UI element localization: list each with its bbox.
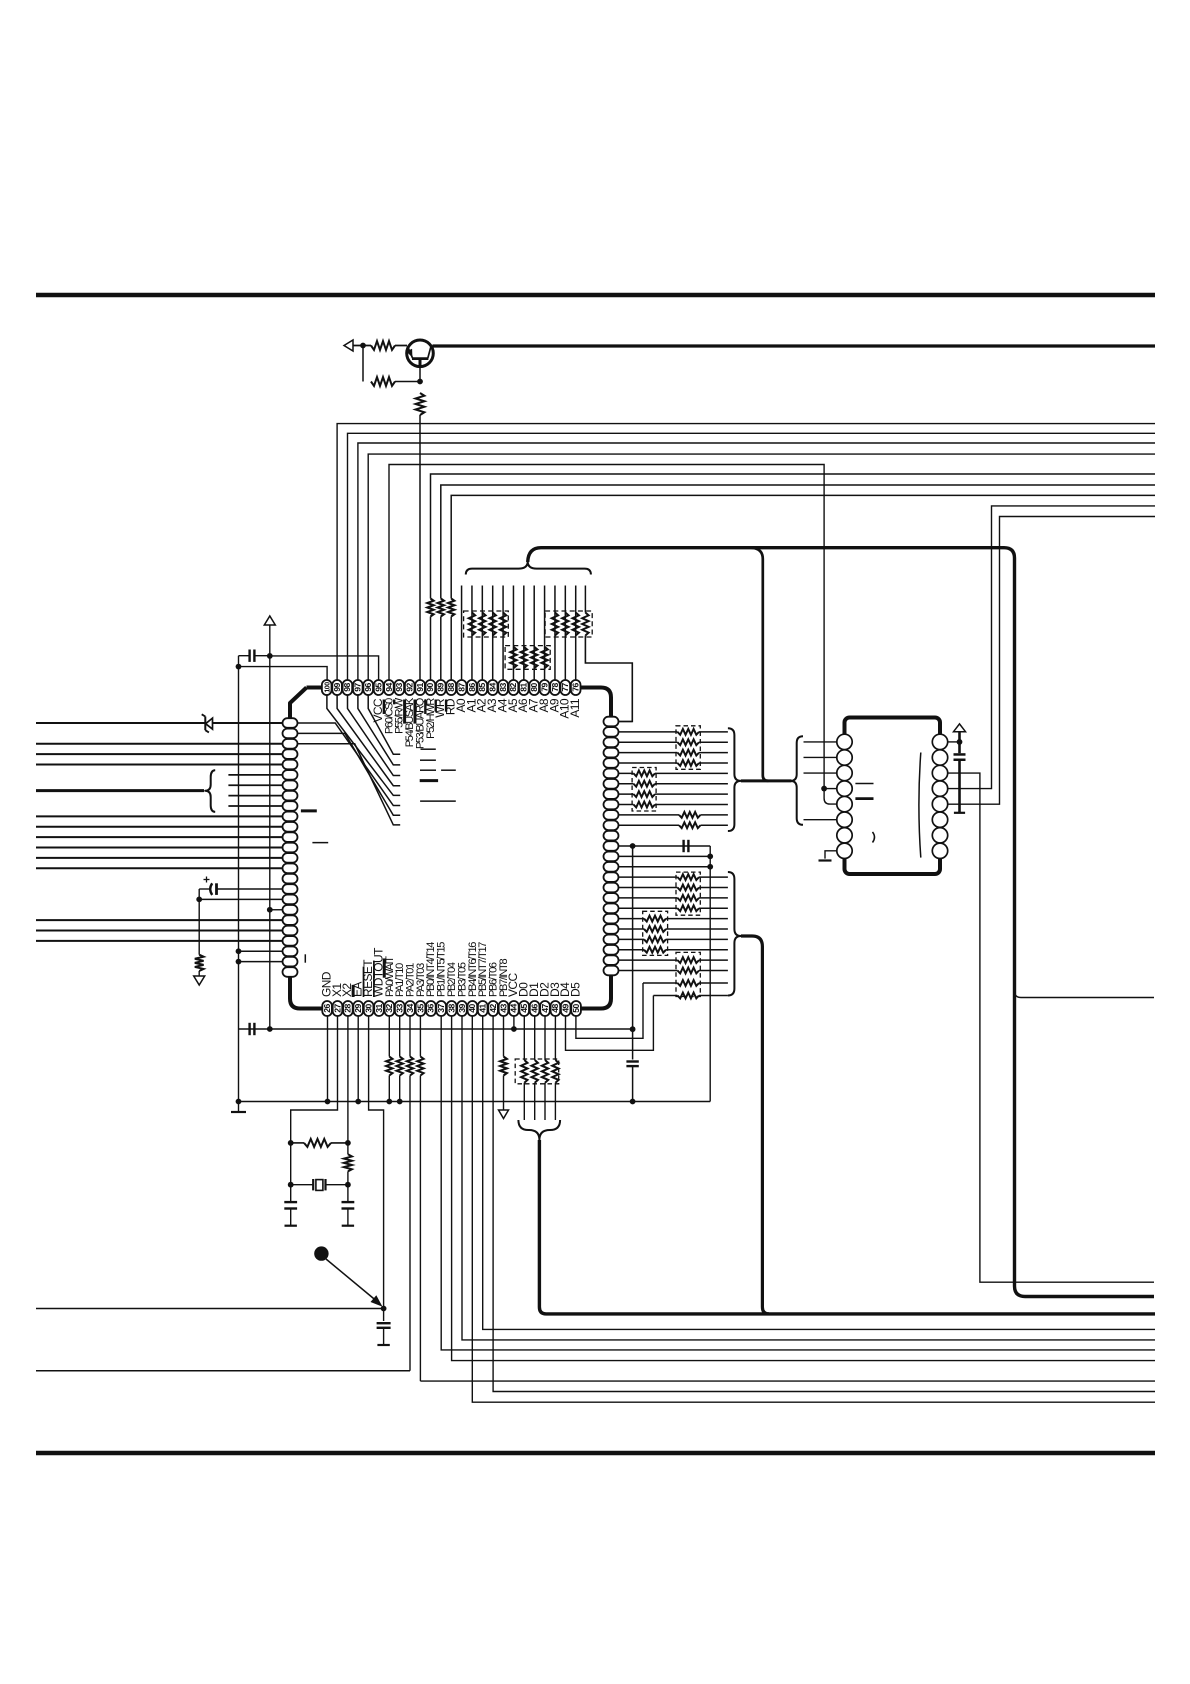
svg-text:32: 32 xyxy=(384,1004,394,1013)
svg-text:78: 78 xyxy=(550,683,560,692)
IC1 right pins 75-51 (ovals) xyxy=(604,717,619,727)
wire (pin 63 net with dot) xyxy=(619,845,711,847)
wire (IC2 R5 from right edge) xyxy=(948,517,1155,805)
node dot xyxy=(381,1306,387,1312)
node dot xyxy=(707,864,713,870)
wire (pin 18 net) xyxy=(199,898,282,900)
svg-text:28: 28 xyxy=(343,1004,353,1013)
svg-text:79: 79 xyxy=(539,683,549,692)
capacitor C-r xyxy=(682,840,684,852)
svg-text:48: 48 xyxy=(550,1004,560,1013)
resistor array RA3 (dashed box) xyxy=(545,611,592,637)
capacitor C-x1 xyxy=(290,1185,292,1202)
node dot xyxy=(236,1099,242,1105)
wire (VCC to pin 95) xyxy=(270,656,379,681)
svg-text:30: 30 xyxy=(363,1004,373,1013)
wire (pin 37 to right edge) xyxy=(441,1016,1155,1350)
wire (pin 34 to left edge) xyxy=(36,1370,410,1372)
electrolytic capacitor C-el xyxy=(215,883,218,895)
svg-text:99: 99 xyxy=(332,683,342,692)
brace (address bus gather) xyxy=(466,562,591,575)
wire (bus line, pin 368 up and right) xyxy=(368,454,1155,680)
wire (pin 1 net) xyxy=(36,722,282,724)
node dot xyxy=(417,379,423,385)
wire xyxy=(290,1143,292,1185)
svg-text:82: 82 xyxy=(508,683,518,692)
svg-text:96: 96 xyxy=(363,683,373,692)
capacitor C-d xyxy=(626,1060,638,1062)
wire (feed to IC2 pins 4,5) xyxy=(824,789,837,805)
bottom horizontal rule xyxy=(36,1451,1155,1456)
wire (pin 29 to ground rail) xyxy=(357,1016,359,1102)
wire (pin 3 net) xyxy=(36,743,282,745)
RA8 resistors (pins 52,51 + D4,D5 lines) xyxy=(619,959,678,961)
svg-text:29: 29 xyxy=(353,1004,363,1013)
svg-text:37: 37 xyxy=(436,1004,446,1013)
transistor Q1 xyxy=(407,340,434,367)
wire (pin 11 net) xyxy=(36,826,282,828)
svg-text:93: 93 xyxy=(394,683,404,692)
ground tick xyxy=(954,812,965,814)
svg-text:91: 91 xyxy=(415,683,425,692)
svg-text:81: 81 xyxy=(519,683,529,692)
IC1 internal fan wires xyxy=(368,696,400,755)
wire (pin 13 net) xyxy=(36,847,282,849)
VCC arrow up xyxy=(958,732,961,742)
wire (bus line, pin 358 up and right) xyxy=(358,443,1155,681)
wire xyxy=(291,1142,304,1144)
resistor array RA4 (dashed box) xyxy=(676,726,700,770)
ground (open triangle) xyxy=(194,976,205,985)
wire (pin 35 to right edge) xyxy=(420,1380,1155,1382)
brace (IC2 input gather) xyxy=(790,736,803,825)
wire (pin 6 from brace) xyxy=(228,774,282,776)
svg-text:47: 47 xyxy=(540,1004,550,1013)
svg-text:42: 42 xyxy=(488,1004,498,1013)
wire (bus line, pin 348 up and right) xyxy=(348,433,1156,680)
IC1 bottom pins 26-50 (ovals) xyxy=(322,1001,332,1016)
wire (pin 75 stub) xyxy=(619,721,633,723)
wire (pin 9 from brace) xyxy=(228,805,282,807)
bus wire (thick data bus down) xyxy=(539,1140,1155,1314)
RA7 resistors (pins 56-53) xyxy=(619,918,645,920)
node dot xyxy=(821,786,827,792)
wire (bus line with resistor, pin col 451) xyxy=(450,617,452,681)
annotation arrow xyxy=(326,1259,376,1301)
IC2 inner mark (thick dash) xyxy=(855,797,873,800)
svg-text:100: 100 xyxy=(325,682,332,693)
svg-text:77: 77 xyxy=(560,683,570,692)
wire (bus line, pin 337 up and right) xyxy=(337,424,1155,681)
wire xyxy=(198,889,200,955)
capacitor C-top xyxy=(248,650,250,662)
wire (IC2 pin8 to ground) xyxy=(825,851,837,859)
microcontroller IC1 (QFP-100) body xyxy=(290,688,611,1009)
wire (bus line with resistor, pin col 441) xyxy=(440,617,442,681)
wire (pin 49 L-path) xyxy=(566,996,654,1051)
RA4 resistors (pins 74-71) xyxy=(619,731,678,733)
svg-text:85: 85 xyxy=(477,683,487,692)
svg-text:80: 80 xyxy=(529,683,539,692)
capacitor C-s xyxy=(248,1023,250,1035)
wire (brace to IC2 pin) xyxy=(804,772,837,774)
wire xyxy=(958,760,961,813)
resistor (pin 32) xyxy=(388,1016,390,1057)
wire (branch from bus to right edge) xyxy=(1015,991,1155,998)
wire (IC2 R1 to VCC node) xyxy=(948,741,960,743)
bus wire (thick, brace to IC2 brace) xyxy=(741,779,792,782)
address bus lines A0-A11 up to brace xyxy=(461,586,463,681)
resistor R-g xyxy=(195,955,204,971)
node dot xyxy=(345,1182,351,1188)
wire xyxy=(239,655,250,657)
IC1 left pins 1-25 (ovals) xyxy=(283,718,298,728)
resistor R-b (base lower) xyxy=(371,377,395,386)
svg-text:92: 92 xyxy=(405,683,415,692)
resistor (pin 35) xyxy=(419,1016,421,1057)
svg-text:97: 97 xyxy=(353,683,363,692)
wire (brace to IC2 pin) xyxy=(804,819,837,821)
node dot xyxy=(345,1140,351,1146)
IC2 inner mark (dash) xyxy=(855,783,873,785)
IC2 left pins (circles) xyxy=(837,734,852,749)
bus wire (thick vertical from address bus T) xyxy=(752,548,769,781)
svg-text:40: 40 xyxy=(467,1004,477,1013)
wire (pin 15 net) xyxy=(36,867,282,869)
zener diode D1 xyxy=(204,717,206,731)
RA2 resistors (A5-A8 lines) xyxy=(510,647,516,668)
crystal X1 xyxy=(291,1184,314,1186)
brace (right bus gather upper) xyxy=(728,728,741,831)
wire (pin 39 to right edge) xyxy=(462,1016,1155,1340)
wire (pin 7 from brace) xyxy=(228,784,282,786)
IC2 inner arc small xyxy=(873,832,875,843)
wire xyxy=(395,381,420,383)
wire (down to pin 91) xyxy=(419,415,421,681)
wire (pin 40 to right edge) xyxy=(472,1016,1155,1402)
wire (collector, thick to right edge) xyxy=(433,344,1156,347)
svg-text:89: 89 xyxy=(436,683,446,692)
IC2 right pins (circles) xyxy=(932,734,947,749)
wire (pin 28 X2 path) xyxy=(347,1016,349,1143)
svg-text:41: 41 xyxy=(478,1004,488,1013)
resistor array RA9 (dashed box) xyxy=(515,1059,559,1084)
node dot xyxy=(707,853,713,859)
svg-text:98: 98 xyxy=(342,683,352,692)
wire (vertical to lower cap) xyxy=(632,846,634,1060)
svg-text:44: 44 xyxy=(509,1004,519,1013)
brace (right bus gather lower) xyxy=(728,872,741,996)
node dot xyxy=(630,1026,636,1032)
wire (left branch down) xyxy=(362,346,364,382)
resistors (pins 66,65) xyxy=(619,814,680,816)
RA5 resistors (pins 70-67) xyxy=(619,772,634,774)
svg-text:50: 50 xyxy=(571,1004,581,1013)
wire (bus line with resistor, pin col 430) xyxy=(430,617,432,681)
wire (pin 50 L-path) xyxy=(576,983,643,1038)
wire (pin 4 net) xyxy=(36,753,282,755)
svg-text:26: 26 xyxy=(322,1004,332,1013)
wire (brace to IC2 pin) xyxy=(804,756,837,758)
svg-text:76: 76 xyxy=(571,683,581,692)
wire (IC2 R3 down to bottom right) xyxy=(948,773,1154,1282)
wire (pin 5 net) xyxy=(36,764,282,766)
wire (pin 8 from brace) xyxy=(228,795,282,797)
RA1 resistors (A1-A4 lines) xyxy=(469,613,475,636)
svg-text:84: 84 xyxy=(488,683,498,692)
capacitor C-x2 xyxy=(347,1185,349,1202)
svg-text:D5: D5 xyxy=(569,982,583,997)
node dot xyxy=(196,896,202,902)
wire (pin 26 to ground rail) xyxy=(327,1016,329,1102)
RA6 resistors (pins 60-57) xyxy=(619,876,678,878)
resistor R-x2 xyxy=(347,1143,349,1154)
capacitor C-r2 xyxy=(383,1309,385,1322)
bus wire (thick, lower brace down to bottom bus) xyxy=(741,936,769,1314)
IC2 body xyxy=(845,718,941,875)
svg-text:87: 87 xyxy=(456,683,466,692)
ground tick xyxy=(819,859,832,861)
supply rail (horizontal) xyxy=(239,1028,633,1030)
svg-text:A11: A11 xyxy=(568,698,582,718)
wire (pin 12 net) xyxy=(36,836,282,838)
svg-text:46: 46 xyxy=(529,1004,539,1013)
svg-text:31: 31 xyxy=(374,1004,384,1013)
wire (pin 22 net) xyxy=(36,940,282,942)
resistor array RA6 (dashed box) xyxy=(676,872,700,915)
node dot xyxy=(288,1140,294,1146)
resistor (pin 43) to ground xyxy=(503,1016,505,1057)
node dot xyxy=(236,664,242,670)
wire (pin 19 stub) xyxy=(270,909,282,911)
svg-text:83: 83 xyxy=(498,683,508,692)
svg-text:86: 86 xyxy=(467,683,477,692)
test point (filled dot) xyxy=(314,1246,328,1260)
node dot xyxy=(957,739,963,745)
wire (emitter down) xyxy=(419,367,421,382)
resistor (pin 33) xyxy=(399,1016,401,1057)
resistor array RA8 (dashed box) xyxy=(676,952,700,996)
wire (reset line to left edge) xyxy=(36,1308,384,1310)
wire (VCC rail vertical) xyxy=(269,656,271,1029)
svg-text:45: 45 xyxy=(519,1004,529,1013)
node dot xyxy=(267,653,273,659)
svg-text:49: 49 xyxy=(561,1004,571,1013)
wire (pin 20 net) xyxy=(36,919,282,921)
wire (pin 27 X1 path) xyxy=(291,1016,338,1143)
wire (pin 61 net) xyxy=(619,866,711,868)
brace (data bus gather) xyxy=(518,1120,560,1140)
wire (spare resistor to pin 75) xyxy=(585,636,632,722)
wire (pin 10 net) xyxy=(36,815,282,817)
svg-text:94: 94 xyxy=(384,683,394,692)
RA3 resistors (A9-A11 + spare) xyxy=(552,613,558,636)
top horizontal rule xyxy=(36,293,1155,298)
svg-text:38: 38 xyxy=(446,1004,456,1013)
resistor array RA2 (dashed box) xyxy=(505,646,550,670)
wire (pin 24 stub) xyxy=(239,961,283,963)
capacitor C-b xyxy=(958,742,961,753)
resistor (pin 34) xyxy=(409,1016,411,1057)
wire (left rail vertical) xyxy=(238,656,240,1102)
resistor array RA1 (dashed box) xyxy=(464,611,509,637)
wire (corner down) xyxy=(709,846,711,1102)
IC1 top pins 100-76 (ovals) xyxy=(322,680,332,695)
wire xyxy=(198,971,200,976)
bus wire (thick address bus) xyxy=(528,548,1154,1297)
svg-text:39: 39 xyxy=(457,1004,467,1013)
resistor array RA5 (dashed box) xyxy=(632,768,656,812)
svg-text:27: 27 xyxy=(332,1004,342,1013)
node dot xyxy=(288,1182,294,1188)
VCC symbol (triangle up) xyxy=(264,616,275,625)
wire (pin 44 to rail) xyxy=(513,1016,515,1029)
IC2 inner arc tall xyxy=(919,753,921,858)
wire (pin 100 to left rail) xyxy=(239,667,328,681)
wire xyxy=(395,345,407,347)
resistor R-x1 xyxy=(304,1139,331,1147)
svg-text:34: 34 xyxy=(405,1004,415,1013)
svg-text:95: 95 xyxy=(373,683,383,692)
svg-text:88: 88 xyxy=(446,683,456,692)
node arrow (off-page, transistor base net) xyxy=(344,340,353,351)
wire (pin 14 net) xyxy=(36,857,282,859)
wire (pin 30 RESET path) xyxy=(369,1016,384,1309)
svg-text:35: 35 xyxy=(415,1004,425,1013)
wire (IC2 R4 from right edge) xyxy=(948,506,1155,789)
node dot xyxy=(511,1026,517,1032)
node dot xyxy=(360,343,366,349)
wire (IC2 pin4 stub) xyxy=(824,788,837,790)
RA9 resistors (pins 45-48 D0-D3) xyxy=(523,1016,525,1060)
ground (open triangle) xyxy=(499,1110,509,1119)
wire (pin 62 net) xyxy=(619,855,711,857)
wire (pin 23 stub) xyxy=(239,950,283,952)
resistor R-c (vertical) xyxy=(416,393,425,415)
wire (pin 38 to right edge) xyxy=(452,1016,1155,1361)
wire xyxy=(353,345,371,347)
brace (pins 6-9 gather) xyxy=(205,770,215,812)
wire (brace to IC2 pin) xyxy=(804,741,837,743)
svg-text:33: 33 xyxy=(395,1004,405,1013)
IC1 internal tick marks xyxy=(421,748,436,750)
wire (pin 94 up, right, down to IC2) xyxy=(389,465,824,789)
wire (pin 42 to right edge) xyxy=(493,1016,1155,1392)
svg-text:90: 90 xyxy=(425,683,435,692)
wire (thick bundle to brace) xyxy=(36,789,204,792)
wire (pin 21 net) xyxy=(36,930,282,932)
svg-text:36: 36 xyxy=(426,1004,436,1013)
resistor R-a (base upper) xyxy=(371,341,395,350)
ground rail bottom (T-bar) xyxy=(238,1102,240,1112)
resistor array RA7 (dashed box) xyxy=(643,911,668,955)
svg-text:43: 43 xyxy=(498,1004,508,1013)
wire (pin 41 to right edge) xyxy=(483,1016,1155,1329)
ground rail (horizontal) xyxy=(239,1101,711,1103)
node dot xyxy=(267,1026,273,1032)
